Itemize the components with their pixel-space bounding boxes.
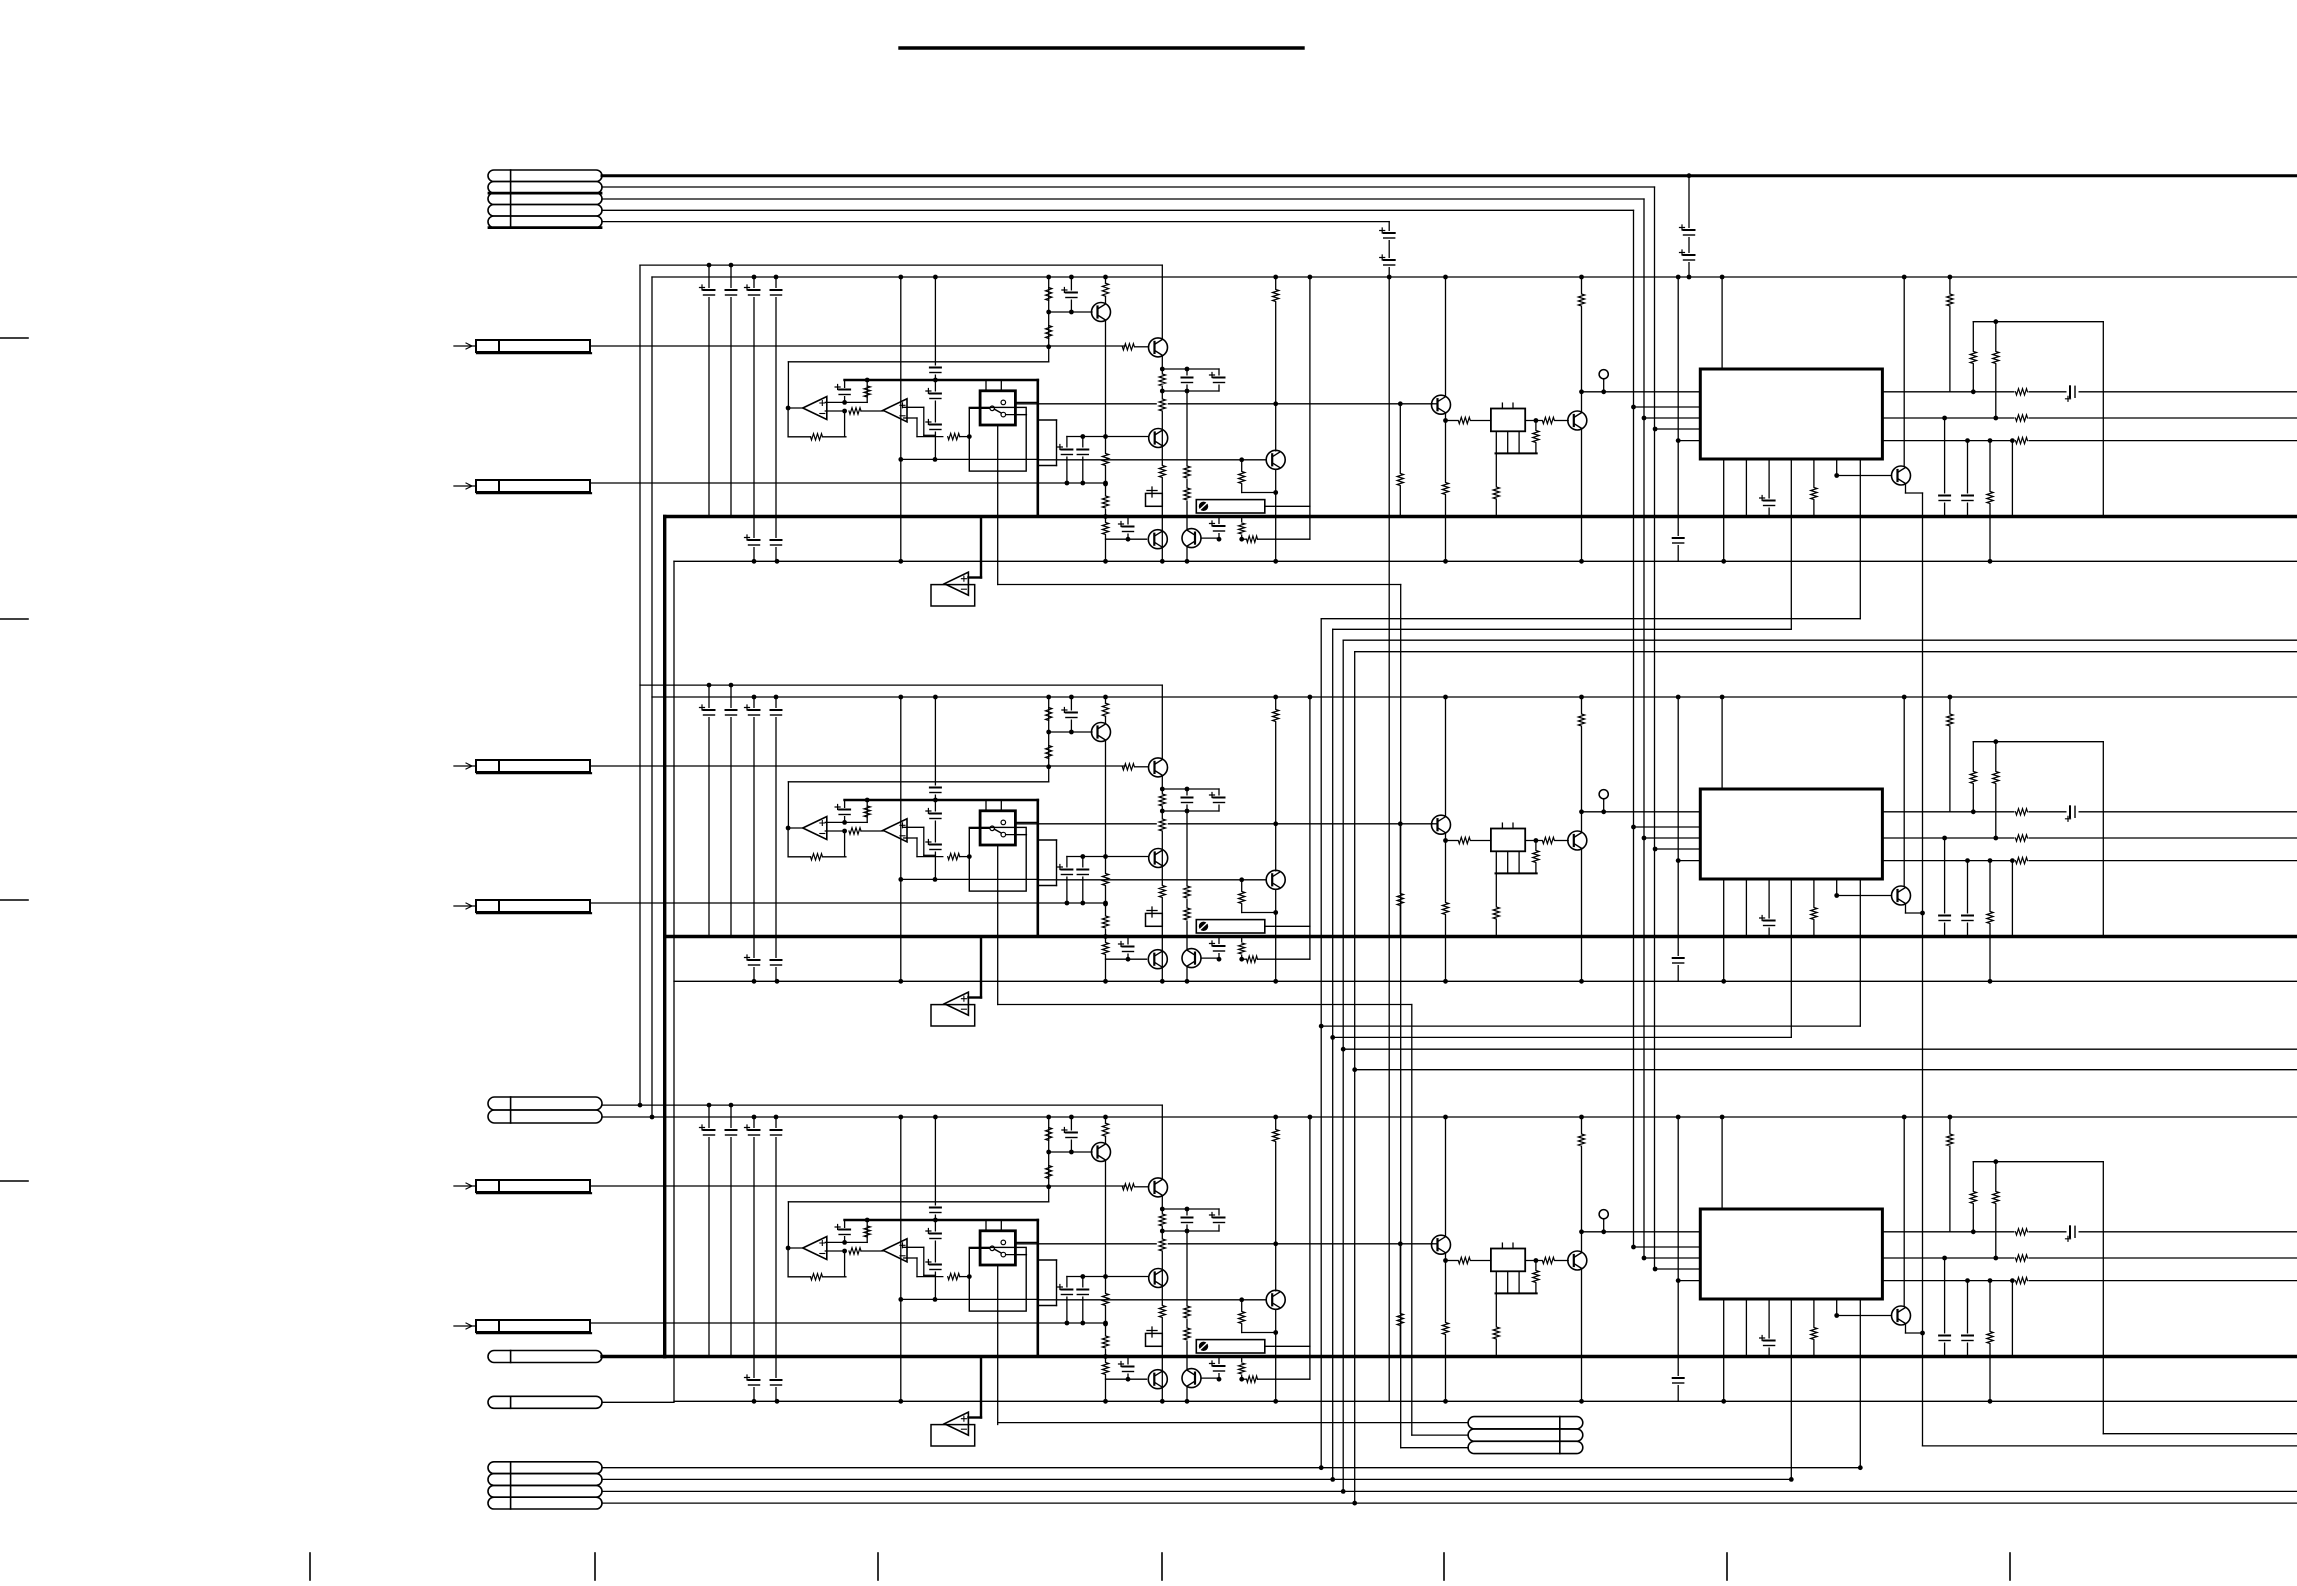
node quad bus 2: [1330, 1035, 1335, 1040]
wire Q2 collector column (row 3): [1161, 1105, 1163, 1178]
node at shield box (row 3): [967, 1274, 972, 1279]
IC U1 bottom pin 5 res (row 2): [1813, 879, 1815, 937]
REG1 top pins (row 2): [1501, 823, 1503, 828]
capacitor C-j2 (row 2): [1082, 857, 1084, 904]
wire cap column D (row 3): [775, 1117, 777, 1401]
capacitor C-r935 (row 2): [930, 786, 941, 795]
resistor R-o4 (row 3): [1989, 1281, 1991, 1402]
wire input L-link (row 1): [788, 361, 1048, 363]
node TP1 (row 2): [1601, 809, 1606, 814]
capacitor C-n1 (row 2): [1186, 789, 1188, 811]
arrowhead on J-A lead (row 1): [466, 343, 472, 349]
resistor R-n2 (row 1): [1157, 399, 1168, 412]
wire switch pole feed (row 2): [969, 827, 990, 829]
wire quad bus 3 vertical: [1342, 640, 1344, 1491]
wire hatched-box riser (row 1): [1309, 277, 1311, 506]
wire J-B output (row 3): [590, 1322, 1106, 1324]
resistor R-d4 (row 1): [1535, 421, 1537, 454]
transistor Q2 (row 2): [1149, 758, 1168, 777]
connector CN4 body line: [1559, 1417, 1561, 1454]
wire mute-1 to CN4 pin 3: [1401, 1447, 1468, 1449]
wire quad bus 1 row1-2 line: [1321, 618, 1860, 620]
regulator REG1 body (row 3): [1491, 1249, 1525, 1272]
wire J-B output (row 1): [590, 482, 1106, 484]
shield hatch circle (row 1): [1199, 502, 1207, 510]
node loop feeds (row 3): [1971, 1229, 1976, 1234]
wire R-q4 link (row 2): [1242, 912, 1276, 914]
wire U-A2 plus input (row 2): [904, 826, 924, 828]
resistor R-o2 (row 2): [2015, 832, 2029, 843]
wire Q8 collector (row 1): [1581, 277, 1583, 411]
wire IC out y418 (row 1): [1882, 417, 2297, 419]
transistor Q8 (row 1): [1568, 411, 1587, 430]
resistor R-c1 (row 2): [1046, 708, 1052, 721]
wire REG1 out (row 2): [1525, 840, 1541, 842]
wire switch line to Q5 base (row 2): [1015, 823, 1432, 825]
node rail-2 junction (row 1): [1720, 275, 1725, 280]
node base node (row 1): [1046, 310, 1051, 315]
node rail-2 junction (row 2): [1720, 695, 1725, 700]
bottom margin tick 3: [877, 1553, 879, 1580]
wire Q7 emitter (row 1): [1445, 414, 1447, 420]
IC U1 bottom pin 7 (elbow A) (row 2): [1859, 879, 1861, 1026]
wire mid link (row 1): [901, 458, 1039, 460]
capacitor C-D2 (row 3): [771, 1378, 782, 1387]
node lower rail junction (row 3): [1721, 1399, 1726, 1404]
switch S1 top pins (row 2): [985, 800, 987, 811]
wire Q7 column lower (row 3): [1445, 1261, 1447, 1402]
resistor R-q4 (row 2): [1241, 880, 1243, 913]
wire mute-1 drop: [1400, 585, 1402, 1448]
wire Q6 col (row 3): [1186, 1357, 1188, 1369]
wire Q7 emitter (row 2): [1445, 834, 1447, 840]
wire R-d6 to Q8 (row 3): [1555, 1260, 1568, 1262]
node rail-2 junction (row 1): [1103, 275, 1108, 280]
capacitor C-m1 (row 1): [1127, 517, 1129, 540]
capacitor column C-E (row 3): [934, 1220, 936, 1299]
wire R-base1 to Q2 base (row 2): [1135, 766, 1149, 768]
node rail-2 junction (row 3): [1948, 1115, 1953, 1120]
transistor Q3 (row 3): [1149, 1269, 1168, 1288]
node Q7 column/lower rail (row 1): [1443, 559, 1448, 564]
left margin tick 2: [0, 618, 28, 620]
wire Q6 col (row 1): [1186, 517, 1188, 529]
capacitor C-j2 (row 1): [1082, 437, 1084, 484]
capacitor C-A1 (row 2): [704, 708, 715, 717]
resistor R-d2 (row 3): [1440, 1322, 1451, 1335]
wire Q1 collector (row 2): [1105, 717, 1107, 724]
node base node (row 3): [1046, 1150, 1051, 1155]
wire bias column E (row 1): [1048, 277, 1050, 347]
capacitor C-F2 (row 2): [1673, 956, 1684, 965]
resistor R-base1 series (row 3): [1122, 1184, 1134, 1190]
bottom margin tick 5: [1443, 1553, 1445, 1580]
wire U-A1 minus input (row 3): [825, 1250, 844, 1252]
resistor R-c3 (row 1): [1105, 277, 1107, 283]
wire quad bus 2 row2-3 line: [1333, 1036, 1792, 1038]
wire GND bus (thick) (row 2): [665, 935, 2297, 938]
wire hatched-box riser (row 3): [1309, 1117, 1311, 1346]
wire CN1-1 (thick) to right edge: [602, 174, 2297, 177]
connector CN5 pin 1 (pill): [488, 1462, 602, 1474]
resistor R-c4b (row 1): [1100, 496, 1111, 509]
resistor R-c4 (row 2): [1100, 873, 1111, 886]
wire Q9 emitter step (row 1): [1905, 485, 1907, 493]
network bottom wire (row 3): [1162, 1230, 1219, 1232]
wire U-M plus feed (row 2): [968, 996, 981, 998]
node Q7 collector (row 3): [1443, 1115, 1448, 1120]
wire Q8 collector (row 3): [1581, 1117, 1583, 1251]
op-amp U-A1 (row 2): [803, 817, 827, 840]
wire IC top pin (row 1): [1721, 277, 1723, 369]
wire feedback bottom (row 1): [788, 436, 811, 438]
wire connector J-A lead-in (row 2): [454, 765, 476, 767]
jumper JP1 box (row 2): [1146, 913, 1163, 926]
node pin6/Q9 base (row 3): [1834, 1313, 1839, 1318]
op-amp U-A1 (row 1): [803, 397, 827, 420]
resistor R-n3 (row 1): [1157, 465, 1168, 478]
wire U-A2 minus down (row 2): [916, 838, 918, 857]
resistor R-k2 (row 3): [1182, 1328, 1193, 1341]
arrowhead on J-A lead (row 3): [466, 1183, 472, 1189]
wire U-A1 output (row 1): [788, 407, 803, 409]
wire REG1 out (row 1): [1525, 420, 1541, 422]
node bias/J-A wire (row 3): [1046, 1184, 1051, 1189]
capacitor C-n1 (row 3): [1186, 1209, 1188, 1231]
wire feedback down (row 1): [787, 408, 789, 437]
resistor R-n3 (row 3): [1157, 1305, 1168, 1318]
node rail-2 junction (row 1): [1676, 275, 1681, 280]
node rail-2 junction (row 1): [1069, 275, 1074, 280]
test point TP1 (row 1): [1599, 370, 1608, 379]
wire CN1-5: [602, 221, 1389, 223]
jumper JP1 box (row 3): [1146, 1333, 1163, 1346]
wire loop top (row 1): [1973, 321, 2103, 323]
node out 440 (row 2): [1965, 858, 1970, 863]
capacitor C-A1 (row 1): [704, 288, 715, 297]
wire IC out y440 (row 1): [1882, 440, 2297, 442]
wire IC out y392 (row 2): [1882, 811, 2297, 813]
wire TP1 stub (row 1): [1603, 379, 1605, 392]
wire IC pin line y407 (row 1): [1634, 406, 1701, 408]
node rail-2 junction (row 3): [933, 1115, 938, 1120]
transistor Q8 (row 2): [1568, 831, 1587, 850]
wire CN5-4 to right edge: [602, 1502, 2297, 1504]
node mute bottom (row 2): [1103, 979, 1108, 984]
resistor R-12 (row 3): [849, 1248, 861, 1254]
wire shield stub down (row 1): [997, 471, 999, 584]
IC U1 bottom pin 2 (row 2): [1745, 879, 1747, 937]
wire stub o5 (row 2): [2011, 861, 2013, 937]
resistor R-d1 (row 3): [1395, 1313, 1406, 1326]
capacitor C-F (row 3): [1070, 1117, 1072, 1152]
node lower rail junction (row 1): [898, 559, 903, 564]
connector CN5 pin 4 (pill): [488, 1497, 602, 1509]
resistor R-d2 (row 2): [1440, 902, 1451, 915]
wire CN1-4: [602, 209, 1634, 211]
node Q8 col/pin line (row 2): [1579, 809, 1584, 814]
node Q1 emitter/J-B wire (row 3): [1103, 1322, 1108, 1327]
wire loop right leg (row 1): [2102, 322, 2104, 517]
capacitor column C-E (row 2): [934, 800, 936, 879]
node rail-1/cap column (row 3): [707, 1103, 712, 1108]
wire bias col extension (row 2): [1048, 767, 1050, 782]
wire IC pin line y429 (row 3): [1655, 1268, 1700, 1270]
node REG1 out (row 1): [1534, 418, 1539, 423]
node Q4 base/R (row 1): [1239, 457, 1244, 462]
wire Q4 emitter (row 1): [1275, 469, 1277, 561]
wire CN1-2: [602, 186, 1655, 188]
node on J-B wire at C column (row 2): [1065, 901, 1070, 906]
resistor R-q4 (row 1): [1241, 460, 1243, 493]
wire Q4 base (row 3): [1039, 1299, 1267, 1301]
resistor R-in1 (row 3): [866, 1220, 868, 1242]
node lower rail junction (row 2): [1988, 979, 1993, 984]
node mute bottom (row 1): [1103, 559, 1108, 564]
shield box 2 outline (row 2): [1056, 840, 1058, 886]
wire R-fb2 to box (row 1): [960, 436, 970, 438]
resistor R-12 (row 1): [849, 408, 861, 414]
bottom margin tick 1: [309, 1553, 311, 1580]
op-amp U-A1 (row 3): [803, 1237, 827, 1260]
node quad bus 1: [1319, 1024, 1324, 1029]
transistor Q7 (row 2): [1432, 815, 1451, 834]
transistor Q9 (row 3): [1892, 1306, 1911, 1325]
node rail-2 junction (row 3): [1720, 1115, 1725, 1120]
node mute net (row 3): [1217, 1377, 1222, 1382]
capacitor C-D1 (row 3): [771, 1128, 782, 1137]
wire J-A output to R base network (row 3): [590, 1185, 1125, 1187]
resistor R-r1 (row 1): [1944, 294, 1955, 307]
resistor R-in1 (row 2): [866, 800, 868, 822]
node U-A1 output (row 1): [786, 406, 791, 411]
switch S1 top pins (row 3): [985, 1220, 987, 1231]
node rail-2 junction (row 1): [1308, 275, 1313, 280]
wire U-M plus feed (row 3): [968, 1416, 981, 1418]
transistor Q6 (row 2): [1182, 949, 1201, 968]
node rail-2 junction (row 2): [1308, 695, 1313, 700]
wire IC pin line y440 (row 2): [1678, 860, 1700, 862]
capacitor C-o2 (row 3): [1944, 1258, 1946, 1357]
wire rail-1 top border (row 1): [640, 264, 1162, 266]
wire J-A output to R base network (row 1): [590, 345, 1125, 347]
wire Q8 emitter (row 1): [1581, 430, 1583, 561]
node cap link (row 3): [1069, 1150, 1074, 1155]
node lower rail junction (row 3): [1579, 1399, 1584, 1404]
wire shield stub down (row 3): [997, 1311, 999, 1424]
IC U1 bottom pin 4 (elbow B) (row 3): [1790, 1299, 1792, 1479]
wire IC out y392 (row 1): [1882, 391, 2297, 393]
node rail-2 junction (row 1): [1046, 275, 1051, 280]
resistor R-n1 (row 3): [1157, 1214, 1168, 1227]
node rail-2 junction (row 3): [1902, 1115, 1907, 1120]
resistor R-c5 (row 2): [1100, 942, 1111, 955]
resistor R-d5 (row 1): [1491, 487, 1502, 500]
node bus x640 end: [638, 1103, 643, 1108]
wire switch pole feed (row 3): [969, 1247, 990, 1249]
wire loop right leg (row 2): [2102, 742, 2104, 937]
mute block outline (row 2): [931, 1005, 975, 1026]
wire R-base1 to Q2 base (row 1): [1135, 346, 1149, 348]
wire long bus 1389 lower: [1388, 277, 1390, 1401]
node plus input (row 1): [842, 400, 847, 405]
node Q7 column/lower rail (row 2): [1443, 979, 1448, 984]
wire CN2-2 rail link: [602, 1116, 652, 1118]
node TP1 (row 3): [1601, 1229, 1606, 1234]
wire mid link (row 2): [901, 878, 1039, 880]
wire to R-fb2 (row 3): [917, 1276, 943, 1278]
capacitor C-j2 (row 3): [1082, 1277, 1084, 1324]
resistor R-n1 (row 2): [1157, 794, 1168, 807]
node Q4 emitter/lower rail (row 1): [1273, 559, 1278, 564]
wire stub o5 (row 1): [2011, 441, 2013, 517]
wire GND bus (thick) (row 3): [665, 1355, 2297, 1358]
node lower rail junction (row 3): [1988, 1399, 1993, 1404]
shielded label box (row 2): [1196, 920, 1265, 933]
wire IC pin line y418 (row 2): [1644, 837, 1700, 839]
wire cap drop column: [1388, 222, 1390, 277]
node lower rail junction (row 2): [775, 979, 780, 984]
node feedback/minus (row 3): [842, 1249, 847, 1254]
wire loop leg terminal (row 3): [2103, 1433, 2297, 1435]
capacitor C-F2 (row 1): [1673, 536, 1684, 545]
wire quad bus 2 vertical: [1332, 629, 1334, 1479]
capacitor C-C1 (row 2): [749, 708, 760, 717]
wire Q1 emitter column (row 1): [1105, 321, 1107, 561]
node U-A1 output (row 2): [786, 826, 791, 831]
node lower rail junction (row 1): [1579, 559, 1584, 564]
REG1 bottom bracket (row 1): [1496, 452, 1537, 454]
arrowhead on J-B lead (row 1): [466, 483, 472, 489]
wire Q6 base link (row 1): [1201, 537, 1219, 539]
node plus input (row 3): [842, 1240, 847, 1245]
wire feedback up (row 3): [844, 1251, 846, 1277]
resistor R-c4b (row 3): [1100, 1336, 1111, 1349]
transistor Q7 (row 3): [1432, 1235, 1451, 1254]
wire feedback down (row 2): [787, 828, 789, 857]
resistor R-m2 (row 3): [1247, 1376, 1258, 1382]
node Q8 col/pin line (row 1): [1579, 389, 1584, 394]
test point TP1 (row 2): [1599, 790, 1608, 799]
resistor R-d7 (row 3): [1576, 1134, 1587, 1147]
connector CN5 pin 3 (pill): [488, 1485, 602, 1497]
wire cap column A (row 2): [708, 685, 710, 936]
wire feedback to node (row 1): [822, 436, 846, 438]
node mute net (row 1): [1217, 537, 1222, 542]
wire switch feed (thick) (row 2): [1037, 800, 1040, 937]
wire Q6 base link (row 2): [1201, 957, 1219, 959]
node Q3 base wire (row 3): [1080, 1274, 1085, 1279]
test point TP1 (row 3): [1599, 1210, 1608, 1219]
IC U1 bottom pin 2 (row 1): [1745, 459, 1747, 517]
wire TP1 stub (row 3): [1603, 1219, 1605, 1232]
wire riser r935 (row 2): [934, 697, 936, 800]
wire bus V1 down: [1654, 187, 1656, 1269]
node lower rail junction (row 1): [1988, 559, 1993, 564]
IC U1 video amplifier (row 3): [1700, 1209, 1882, 1299]
wire IC out y440 (row 3): [1882, 1280, 2297, 1282]
resistor R-k1 (row 1): [1182, 466, 1193, 479]
connector J-A coax input (row 1): [476, 340, 590, 352]
connector CN1 pin 5 (pill): [488, 216, 602, 228]
wire quad bus 3 row2-3 line: [1343, 1048, 2297, 1050]
wire Q7 emitter (row 3): [1445, 1254, 1447, 1260]
resistor R-L2 (row 2): [1990, 771, 2001, 784]
node rail-2 junction (row 2): [1948, 695, 1953, 700]
resistor R-in1 (row 1): [866, 380, 868, 402]
resistor R-d4 (row 3): [1535, 1261, 1537, 1294]
node network (row 1): [1160, 367, 1165, 372]
node at shield box (row 1): [967, 434, 972, 439]
wire bias bar (thick) (row 3): [845, 1219, 1038, 1222]
node Q3 base wire (row 1): [1080, 434, 1085, 439]
wire hatched-box output (row 2): [1265, 925, 1310, 927]
wire cap column F (row 3): [1677, 1117, 1679, 1401]
resistor R-o2 (row 1): [2015, 412, 2029, 423]
resistor R-c4 (row 3): [1100, 1293, 1111, 1306]
node rail-2 junction (row 3): [1103, 1115, 1108, 1120]
wire hatched-box output (row 1): [1265, 505, 1310, 507]
resistor R-fb2 (row 2): [948, 853, 960, 859]
transistor Q9 (row 1): [1892, 466, 1911, 485]
mute block outline (row 3): [931, 1425, 975, 1446]
connector CN1 pin 3 (pill): [488, 193, 602, 205]
wire R-m2 link (row 2): [1242, 958, 1247, 960]
node bias bar (row 2): [865, 798, 870, 803]
node loop feeds (row 1): [1971, 389, 1976, 394]
wire U-A1 plus input (row 2): [825, 821, 867, 823]
wire mute control line (row 1): [998, 584, 1401, 586]
wire shield stub down (row 2): [997, 891, 999, 1004]
shield hatch circle (row 2): [1199, 922, 1207, 930]
connector CN5 body line: [510, 1462, 512, 1509]
node network (row 3): [1160, 1207, 1165, 1212]
node lower rail junction (row 3): [752, 1399, 757, 1404]
capacitor C-C1 (row 3): [749, 1128, 760, 1137]
wire switch throw-2 output (row 2): [1006, 834, 1027, 836]
wire loop mid leg (row 2): [1995, 742, 1997, 838]
node plus input (row 2): [842, 820, 847, 825]
wire lower rail (row 3): [674, 1400, 2297, 1402]
wire U-A2 branch column (row 1): [900, 277, 902, 561]
capacitor C-o1 series (row 2): [2067, 806, 2079, 817]
node lower rail junction (row 2): [1579, 979, 1584, 984]
node REG1 out (row 3): [1534, 1258, 1539, 1263]
node on J-B wire at C column (row 1): [1065, 481, 1070, 486]
node Q6 emitter (row 3): [1185, 1399, 1190, 1404]
wire Q9 base (row 2): [1837, 895, 1892, 897]
resistor R-fb1 (row 2): [811, 854, 823, 860]
resistor R-d7 (row 1): [1576, 294, 1587, 307]
node rail-2 junction (row 3): [1308, 1115, 1313, 1120]
wire U-A2 minus down (row 3): [916, 1258, 918, 1277]
wire Q7 column lower (row 2): [1445, 841, 1447, 982]
resistor R-c2 (row 1): [1046, 326, 1052, 339]
wire Q9 emitter step (row 2): [1905, 905, 1907, 913]
wire Q2 emitter column (row 1): [1161, 356, 1163, 561]
wire Q3 base (row 2): [1067, 856, 1149, 858]
wire R-d6 to Q8 (row 1): [1555, 420, 1568, 422]
wire lower-rail bus vertical: [673, 561, 675, 1401]
resistor R-d6 (row 2): [1542, 837, 1554, 843]
node Q7 collector (row 2): [1443, 695, 1448, 700]
node Q7 column/lower rail (row 3): [1443, 1399, 1448, 1404]
node rail-2 junction (row 2): [898, 695, 903, 700]
capacitor C-o2 (row 1): [1944, 418, 1946, 517]
IC U1 bottom pin 3 cap (row 2): [1768, 879, 1770, 937]
wire to R-fb2 (row 1): [917, 436, 943, 438]
arrowhead on J-B lead (row 2): [466, 903, 472, 909]
